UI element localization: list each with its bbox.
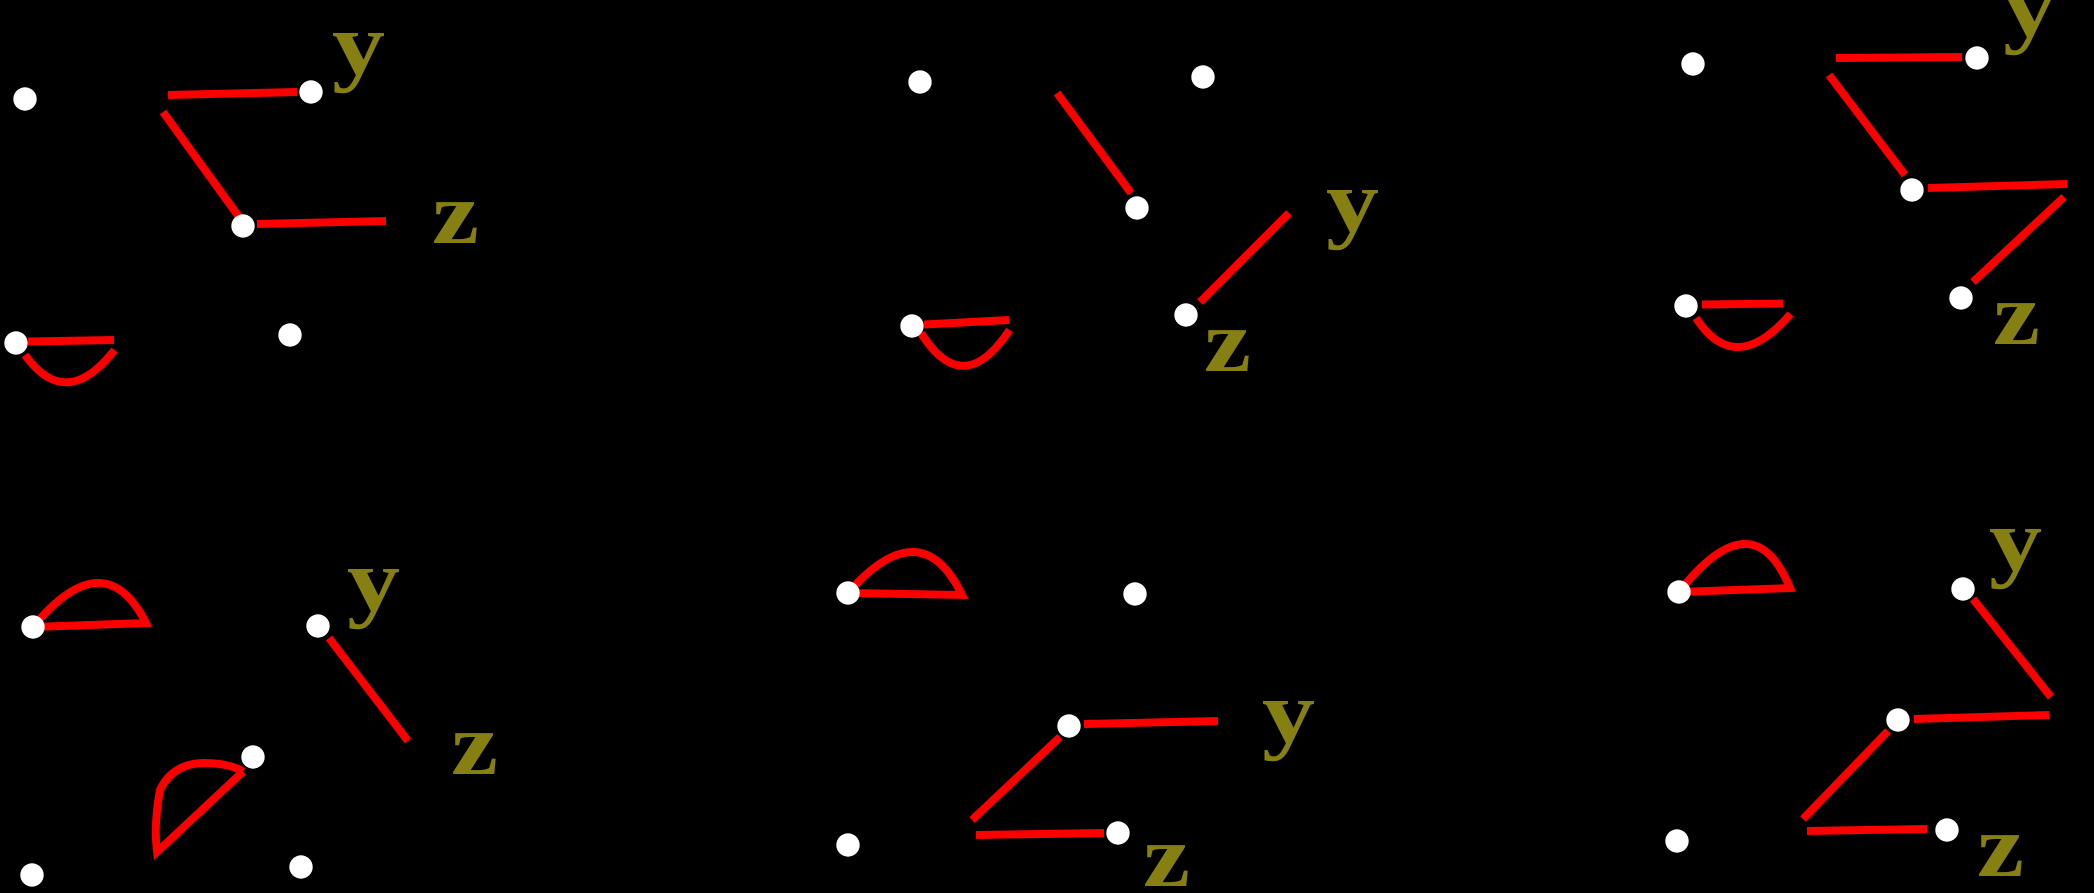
node C3 xyxy=(1900,178,1923,201)
svg-text:z: z xyxy=(1204,293,1251,391)
node A3 xyxy=(231,214,254,237)
node B1 xyxy=(908,70,931,93)
node F3 xyxy=(1886,708,1909,731)
svg-text:y: y xyxy=(1326,153,1379,251)
wire A diagonal xyxy=(163,112,239,217)
wire C horizontal to y-node xyxy=(1836,57,1962,58)
svg-text:y: y xyxy=(2003,0,2056,56)
node E5 xyxy=(836,833,859,856)
loop E bump at node E1 xyxy=(848,552,962,595)
node D4 xyxy=(20,863,43,886)
node F1 xyxy=(1667,580,1690,603)
node C2 (y) xyxy=(1965,46,1988,69)
node E2 xyxy=(1123,582,1146,605)
node A1 xyxy=(13,87,36,110)
wire C diagonal upper xyxy=(1829,75,1905,175)
wire B diagonal upper xyxy=(1057,93,1131,193)
wire E diagonal xyxy=(972,737,1060,820)
svg-text:y: y xyxy=(1262,664,1315,762)
node A4 xyxy=(278,323,301,346)
node C1 xyxy=(1681,52,1704,75)
wire B diagonal to y xyxy=(1200,213,1289,302)
node B4 xyxy=(1174,303,1197,326)
node A5 xyxy=(4,331,27,354)
loop F bump at node F1 xyxy=(1679,544,1790,592)
wire C diagonal lower xyxy=(1973,197,2064,282)
wire F horizontal mid xyxy=(1914,715,2049,719)
node E3 xyxy=(1057,714,1080,737)
wire E horizontal to z-node xyxy=(976,833,1104,835)
loop B at node B5 xyxy=(924,320,1009,325)
loop A at node A5 xyxy=(28,340,114,342)
svg-text:z: z xyxy=(432,165,479,263)
svg-text:z: z xyxy=(1143,808,1190,893)
node C5 xyxy=(1674,294,1697,317)
wire A horizontal to z xyxy=(257,221,386,224)
node C4 xyxy=(1949,286,1972,309)
wire A horizontal to y-node xyxy=(168,92,297,95)
node D5 xyxy=(289,855,312,878)
node B2 xyxy=(1191,65,1214,88)
node E1 xyxy=(836,581,859,604)
node D2 (y) xyxy=(306,614,329,637)
svg-text:y: y xyxy=(1989,492,2042,590)
node F5 xyxy=(1665,829,1688,852)
loop D teardrop at node D3 xyxy=(156,763,243,852)
wire F diagonal from y-node xyxy=(1973,599,2051,697)
node D1 xyxy=(21,615,44,638)
node B3 xyxy=(1125,196,1148,219)
node E4 (z) xyxy=(1106,821,1129,844)
wire D diagonal to z xyxy=(329,638,408,741)
node D3 xyxy=(241,745,264,768)
node B5 xyxy=(900,314,923,337)
wire E horizontal to y xyxy=(1084,721,1218,724)
svg-text:z: z xyxy=(1977,798,2024,893)
loop D bump at node D1 xyxy=(33,583,146,627)
node A2 (y) xyxy=(299,80,322,103)
node F4 (z) xyxy=(1935,818,1958,841)
svg-text:y: y xyxy=(347,532,400,630)
wire C horizontal mid xyxy=(1928,184,2067,188)
wire F diagonal lower xyxy=(1803,731,1888,819)
svg-text:z: z xyxy=(1993,266,2040,364)
wire F horizontal to z-node xyxy=(1807,829,1927,831)
loop C at node C5 xyxy=(1702,304,1783,305)
svg-text:y: y xyxy=(332,0,385,94)
node F2 (y) xyxy=(1951,577,1974,600)
svg-text:z: z xyxy=(451,696,498,794)
